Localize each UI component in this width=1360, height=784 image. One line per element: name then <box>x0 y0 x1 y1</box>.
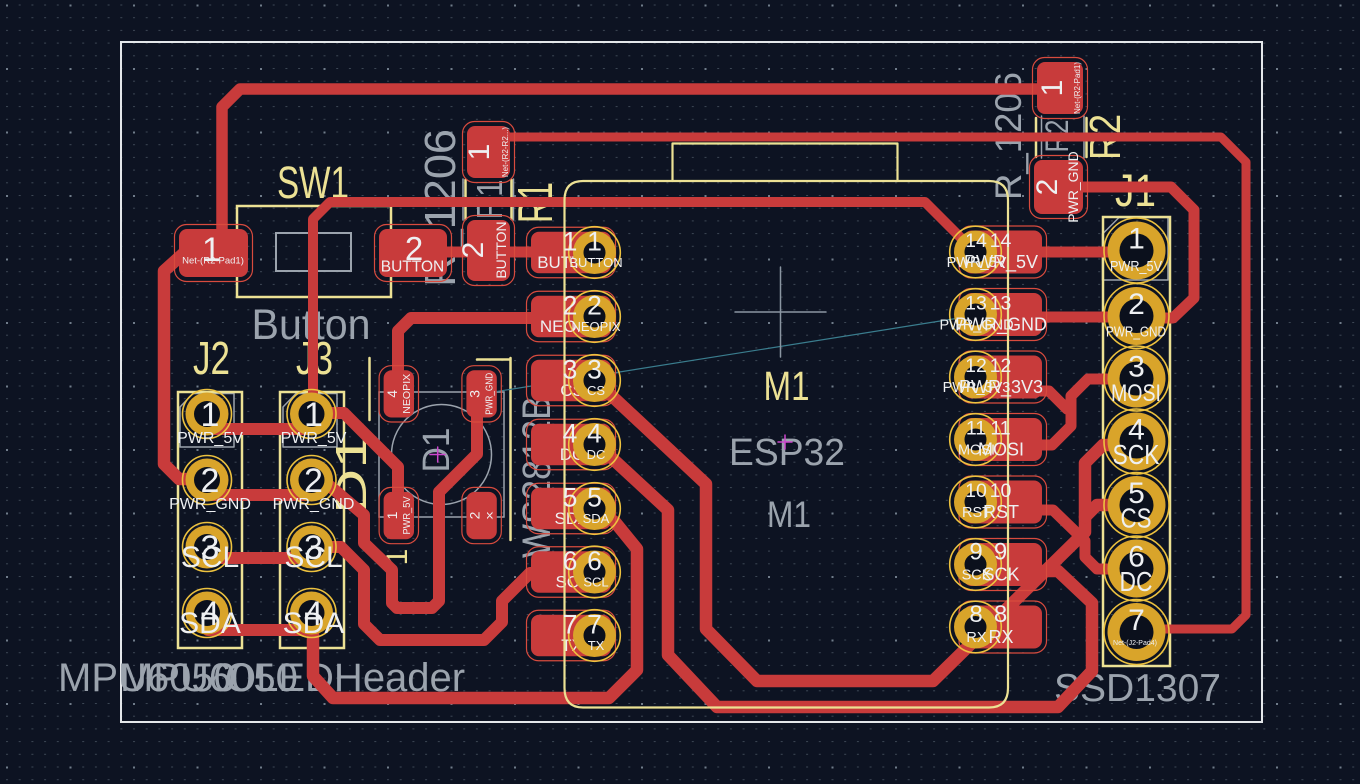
svg-text:MOSI: MOSI <box>1111 380 1161 407</box>
svg-text:1: 1 <box>1036 80 1069 97</box>
svg-text:CS: CS <box>587 383 605 398</box>
svg-text:1: 1 <box>463 144 496 161</box>
svg-text:PWR_5V: PWR_5V <box>1110 258 1162 275</box>
svg-text:11: 11 <box>966 418 986 440</box>
svg-text:4: 4 <box>563 419 578 449</box>
svg-text:NEOPIX: NEOPIX <box>401 374 413 414</box>
svg-text:5: 5 <box>563 483 578 513</box>
svg-text:1: 1 <box>384 511 400 519</box>
svg-text:PWR_GND: PWR_GND <box>955 315 1047 336</box>
svg-text:PWR_GND: PWR_GND <box>169 496 251 513</box>
svg-text:4: 4 <box>587 419 602 449</box>
svg-text:DC: DC <box>1120 566 1153 597</box>
svg-text:14: 14 <box>965 230 987 252</box>
svg-text:1: 1 <box>304 396 323 434</box>
svg-text:SCL: SCL <box>284 541 342 574</box>
svg-text:3: 3 <box>563 355 578 385</box>
svg-text:2: 2 <box>1128 288 1145 321</box>
svg-text:12: 12 <box>965 355 987 377</box>
svg-text:PWR_3V3: PWR_3V3 <box>959 377 1043 398</box>
svg-text:MOSI: MOSI <box>978 440 1024 460</box>
svg-text:2: 2 <box>563 291 578 321</box>
svg-text:1: 1 <box>201 396 220 434</box>
svg-text:2: 2 <box>457 242 490 259</box>
svg-text:3: 3 <box>467 390 483 398</box>
svg-text:PWR_5V: PWR_5V <box>964 252 1038 273</box>
svg-text:J2: J2 <box>193 332 230 384</box>
svg-text:PWR_5V: PWR_5V <box>281 430 347 447</box>
svg-text:BUTTON: BUTTON <box>381 259 444 276</box>
svg-text:PWR_GND: PWR_GND <box>484 372 496 414</box>
svg-text:PWR_GND: PWR_GND <box>1065 151 1081 223</box>
svg-text:SDA: SDA <box>179 607 241 640</box>
svg-text:RX: RX <box>966 630 986 646</box>
svg-text:PWR_5V: PWR_5V <box>401 497 413 535</box>
svg-text:PWR_GND: PWR_GND <box>1106 324 1166 341</box>
svg-text:DC: DC <box>587 447 606 462</box>
svg-text:SCL: SCL <box>181 541 239 574</box>
svg-text:13: 13 <box>965 293 987 315</box>
svg-text:10: 10 <box>965 480 987 502</box>
svg-text:10: 10 <box>990 480 1012 502</box>
svg-text:SCK: SCK <box>1113 439 1160 470</box>
svg-text:11: 11 <box>990 418 1010 440</box>
svg-text:ESP32: ESP32 <box>729 432 845 474</box>
svg-text:2: 2 <box>201 462 220 500</box>
svg-text:2: 2 <box>587 291 602 321</box>
svg-text:1: 1 <box>1128 223 1145 256</box>
svg-text:BUTTON: BUTTON <box>493 221 509 278</box>
svg-text:SDA: SDA <box>583 511 610 526</box>
svg-text:Net-(J2-Pad4): Net-(J2-Pad4) <box>1113 640 1157 647</box>
svg-text:7: 7 <box>587 610 602 640</box>
svg-text:M1: M1 <box>764 363 810 409</box>
svg-text:4: 4 <box>384 390 400 398</box>
svg-text:PWR_GND: PWR_GND <box>273 496 355 513</box>
svg-text:SCK: SCK <box>982 565 1019 585</box>
svg-text:12: 12 <box>990 355 1012 377</box>
svg-text:SDA: SDA <box>283 607 345 640</box>
svg-text:1: 1 <box>563 227 578 257</box>
svg-text:7: 7 <box>563 610 578 640</box>
svg-text:RX: RX <box>988 627 1013 647</box>
svg-text:8: 8 <box>994 601 1007 628</box>
svg-text:7: 7 <box>1128 604 1145 637</box>
svg-text:9: 9 <box>969 539 982 566</box>
svg-text:Net-(R2-Pad1): Net-(R2-Pad1) <box>1073 62 1082 114</box>
svg-text:2: 2 <box>467 511 483 519</box>
svg-text:9: 9 <box>994 539 1007 566</box>
svg-text:6: 6 <box>587 546 602 576</box>
svg-text:6: 6 <box>563 546 578 576</box>
svg-text:TX: TX <box>588 638 605 653</box>
svg-text:3: 3 <box>1128 351 1145 384</box>
svg-text:13: 13 <box>990 293 1012 315</box>
svg-text:RST: RST <box>983 502 1019 522</box>
svg-text:BUTTON: BUTTON <box>569 255 622 270</box>
svg-text:NEOPIX: NEOPIX <box>571 319 620 334</box>
svg-text:M1: M1 <box>767 494 811 535</box>
svg-text:Net-(R2-Pad1): Net-(R2-Pad1) <box>182 256 244 267</box>
svg-text:PWR_5V: PWR_5V <box>177 430 243 447</box>
svg-text:SCL: SCL <box>583 575 608 590</box>
svg-text:x: x <box>484 510 496 519</box>
svg-text:8: 8 <box>969 601 982 628</box>
svg-text:CS: CS <box>1121 503 1152 534</box>
svg-text:2: 2 <box>304 462 323 500</box>
svg-text:Net-(R2-R2...): Net-(R2-R2...) <box>501 127 510 178</box>
svg-text:1: 1 <box>587 227 602 257</box>
svg-text:5: 5 <box>587 483 602 513</box>
svg-text:14: 14 <box>990 230 1012 252</box>
svg-text:2: 2 <box>1031 179 1064 196</box>
svg-text:3: 3 <box>587 355 602 385</box>
